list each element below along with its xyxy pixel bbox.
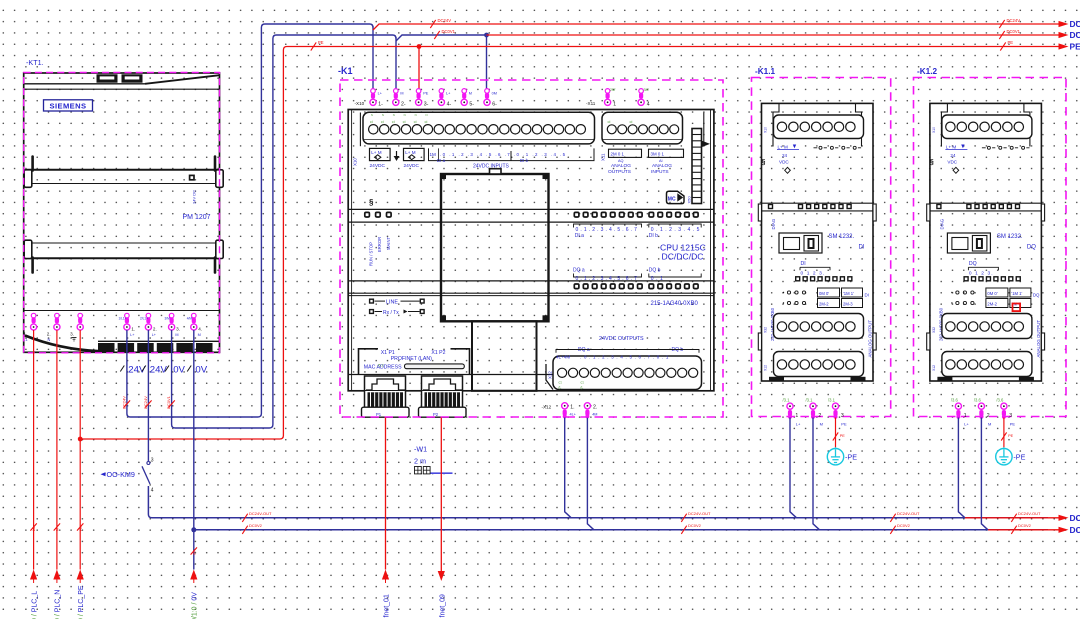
svg-text:. 0 . 1 . 2 . 3 . 4 . 5 . 6 .: . 0 . 1 . 2 . 3 . 4 . 5 . 6 . 7 . 0 . 1 [580,354,669,359]
svg-text:DQ: DQ [1033,293,1040,298]
svg-text:M: M [198,333,201,337]
ethernet jack X1 P2 [419,376,467,417]
wire DC0V1 horizontal segment to junction [396,35,487,41]
wire DC24V from PM output 1 to bus riser [127,24,373,417]
svg-text:24V DC: 24V DC [191,190,196,204]
PM1207 input terminal 2 (N) [54,313,60,330]
svg-text:PE: PE [1010,421,1016,426]
svg-text:-K1.2: -K1.2 [917,67,937,76]
DQ b status labels [649,268,701,282]
bus DC0V2 red tail and arrow [988,525,1080,535]
svg-text:4: 4 [647,102,650,108]
svg-text:DC: DC [1070,30,1080,40]
svg-text:5-: 5- [469,102,474,108]
svg-text:1M: 1M [430,152,437,157]
svg-text:DC: DC [1070,513,1080,523]
svg-text:2M-2: 2M-2 [819,302,829,307]
svg-text:DIAG: DIAG [939,218,944,229]
CPU 1215C body outline [348,110,714,391]
svg-text:DC24V-OUT: DC24V-OUT [1018,511,1041,516]
svg-text:4.: 4. [198,327,202,332]
wire DC0V1 from PM output 3 to bus riser [172,35,396,428]
net label DC24V (right) [999,20,1004,28]
PM1207 status LED and 24V DC label [190,175,197,204]
svg-text:DC24V: DC24V [121,396,126,409]
svg-text:DC0V2: DC0V2 [688,523,702,528]
svg-text:§: § [762,159,766,166]
svg-text:L+ M: L+ M [778,144,789,149]
CPU top corner brackets [360,113,710,148]
svg-text:SM 1232.: SM 1232. [997,234,1023,240]
cable -W1 network cable [414,444,453,474]
svg-text:DQ a: DQ a [578,347,590,353]
svg-text:P1: P1 [376,412,382,417]
svg-text:DQ b: DQ b [649,268,661,274]
wire -K1.2 PE to earth [1001,418,1013,448]
wire -K1.1 M to DC0V2 bus [813,418,820,530]
module -K1.1 address switch [779,233,822,253]
svg-text:L+: L+ [378,92,383,96]
terminal strip -X11 [586,88,650,108]
module -K1.2 type label SM 1232 [997,234,1036,250]
Rx/Tx indicator [370,310,424,316]
svg-text:X12: X12 [932,365,936,371]
svg-text:2.: 2. [153,327,157,332]
net label PE (left) [311,42,316,50]
svg-text:4M: 4M [592,412,597,416]
green wire end marks on analog connector [608,119,633,124]
PM1207 input terminal 3 (PE) [77,313,83,330]
svg-text:MC: MC [668,197,676,203]
svg-text:3: 3 [841,413,844,419]
svg-text:DQ: DQ [1027,244,1036,250]
svg-text:N: N [371,113,373,117]
svg-text:X10: X10 [932,127,936,133]
svg-text:L+: L+ [796,421,801,426]
wire DC24V label on KM9 wire [145,400,151,407]
svg-text:N: N [415,113,417,117]
interruption arrow fnet_09 [438,571,445,581]
svg-text:1: 1 [964,413,967,419]
svg-text:DC/DC/DC: DC/DC/DC [662,252,704,262]
svg-text:DI a: DI a [437,158,446,163]
svg-text:/3.1: /3.1 [828,397,836,402]
svg-text:X10: X10 [353,158,358,166]
svg-text:24V: 24V [150,365,168,376]
svg-text:DC24V-OUT: DC24V-OUT [897,511,920,516]
module -K1.2 body outline [927,103,1045,381]
svg-text:3M': 3M' [644,88,650,92]
24VDC OUTPUTS labels [556,336,699,359]
module -K1.2 output connector A [942,314,1032,339]
svg-text:X32: X32 [932,327,936,333]
svg-text:DI: DI [859,244,865,250]
svg-text:c1: c1 [581,381,585,385]
svg-text:RUN / STOP: RUN / STOP [368,242,373,266]
svg-text:DI: DI [801,261,806,267]
24V 24V 0V 0V output voltage labels [120,365,207,376]
svg-text:VDC: VDC [779,159,789,164]
module -K1.2 supply labels [930,144,968,173]
CPU LED band upper [348,209,714,222]
svg-text:fnet_09: fnet_09 [440,594,447,617]
svg-text:OO-KM9: OO-KM9 [107,470,135,479]
ethernet jack X1 P1 [362,376,410,417]
wire 0V label [191,547,197,554]
svg-text:0 / PLC_N: 0 / PLC_N [55,590,62,619]
PM1207 DIN rail band upper [24,157,223,188]
svg-text:DC0V1: DC0V1 [166,395,171,409]
module -K1.2 macro boundary (magenta dashed) [914,78,1067,417]
module -K1.2 unused terminal marks [982,146,1030,149]
svg-text:M: M [820,421,823,426]
svg-text:DC24V-OUT: DC24V-OUT [688,511,711,516]
module -K1.2 wiring diagram labels [951,288,1040,308]
svg-text:0.1.2.3.4.5.6.7: 0.1.2.3.4.5.6.7 [576,227,639,233]
earth symbol PE at -K1.1 [827,447,857,465]
wire -K1.1 PE to earth [833,418,845,448]
PM1207 bottom terminal area [24,311,220,352]
junction 0V / DC0V2 bus [191,527,196,532]
svg-text:3: 3 [151,458,154,464]
svg-text:L+ M: L+ M [946,144,957,149]
CPU K1 macro boundary (magenta dashed) [340,80,723,417]
net label DC24V (mid) [430,20,435,28]
svg-text:X11: X11 [601,153,606,161]
svg-text:PM 1207: PM 1207 [183,214,211,221]
svg-text:/3.1: /3.1 [783,397,791,402]
CPU display door (lower) [472,321,537,391]
svg-text:X1 P2: X1 P2 [431,350,445,356]
interruption arrow PLC_PE [77,570,84,584]
svg-text:3-: 3- [424,102,429,108]
svg-text:/3.6: /3.6 [974,397,982,402]
wire DC0V1 continuation to right edge [487,32,1069,38]
wire X12:2 to DC0V2 bus [587,418,594,530]
DQ a status labels [573,268,642,282]
svg-text:DC0V2: DC0V2 [897,523,911,528]
module -K1.2 channel labels [968,261,998,276]
net label DC0V1 (right) [999,31,1004,39]
wire PLC_N (neutral) [56,330,58,570]
module -K1.2 terminal 1 (L+) [951,397,970,426]
svg-text:0 1 2 3.: 0 1 2 3. [801,271,826,277]
module -K1.1 output connector A [774,314,864,339]
svg-text:P2: P2 [433,412,439,417]
wire DC24V riser label [124,400,130,407]
module -K1.1 channel LEDs [796,277,852,281]
svg-text:DC24V: DC24V [1007,18,1021,23]
wire 0V from PM output 4 down [193,330,195,570]
svg-text:L+: L+ [964,421,969,426]
svg-text:DI: DI [865,293,869,298]
svg-text:24: 24 [950,153,956,158]
svg-text:M: M [400,92,403,96]
svg-text:X1 P1: X1 P1 [381,350,395,356]
wire -K1.2 L+ to DC24V-OUT bus [958,418,965,518]
wire DC0V1 drop to X10:6 [486,35,488,89]
svg-text:2M': 2M' [610,88,616,92]
contact -OO-KM9 (NO contact) [142,458,154,494]
svg-text:'1M 1': '1M 1' [843,291,854,296]
interruption arrow PE right edge [1059,43,1069,49]
svg-text:24VDC: 24VDC [370,163,386,169]
svg-text:0 / PLC_PE: 0 / PLC_PE [78,585,85,619]
wire from KM9 to DC24V-OUT bus [148,486,1048,518]
svg-text:-X12: -X12 [542,404,552,409]
svg-text:PE: PE [841,421,847,426]
svg-text:4-: 4- [447,102,452,108]
svg-text:ANALOG OUTPUT: ANALOG OUTPUT [868,320,873,358]
svg-text:ANALOG OUTPUT: ANALOG OUTPUT [1036,320,1041,358]
svg-text:2 m: 2 m [414,456,426,465]
svg-text:MAINT: MAINT [386,237,391,250]
CPU analog connector block [602,112,683,144]
svg-text:-KT1.: -KT1. [26,58,44,67]
svg-text:0M 0': 0M 0' [819,291,829,296]
svg-text:DQ b: DQ b [672,347,684,353]
svg-text:1: 1 [795,413,798,419]
wire DC0V1 drop to X10:2 [395,37,397,89]
svg-text:3M 0 1: 3M 0 1 [651,152,665,157]
PM1207 input terminal labels [24,332,77,343]
svg-text:ci: ci [403,119,406,124]
svg-text:2M-3: 2M-3 [843,302,853,307]
svg-text:PE: PE [1008,434,1014,438]
svg-text:(L: (L [559,385,562,389]
svg-text:L+: L+ [130,333,135,337]
wire X12:1 to DC24V-OUT bus [565,418,572,518]
svg-text:-X10: -X10 [355,101,365,106]
svg-text:24VDC OUTPUTS: 24VDC OUTPUTS [599,336,644,342]
svg-text:N: N [393,113,395,117]
svg-text:PROFINET (LAN): PROFINET (LAN) [391,356,432,362]
wire DC24V continuation to right edge [373,21,1069,30]
svg-text:OUTPUTS: OUTPUTS [608,169,631,175]
svg-text:-W1: -W1 [414,444,427,453]
svg-text:DC0V1: DC0V1 [1007,29,1021,34]
svg-text:DC0V1: DC0V1 [442,29,456,34]
net label DC0V1 (mid) [434,31,439,39]
interruption arrow PLC_L [30,570,37,584]
module -K1.1 wiring diagram labels [783,288,869,308]
svg-text:/5.2: /5.2 [378,364,384,368]
analog input bracket [649,149,684,175]
wire PLC_L (L1 phase) [33,330,35,570]
svg-text:ci: ci [608,119,611,124]
svg-text:X12: X12 [548,371,553,379]
svg-text:X32: X32 [764,327,768,333]
svg-text:2: 2 [818,413,821,419]
wire -K1.2 M to DC0V2 bus [981,418,988,530]
svg-text:24VDC: 24VDC [404,163,420,169]
terminal strip -X10 [355,89,498,108]
module -K1.1 type label SM 1232 [829,234,865,250]
svg-text:fnet_01: fnet_01 [384,594,391,617]
svg-text:DIAG: DIAG [771,218,776,229]
svg-text:AI: AI [659,159,663,163]
svg-text:ci: ci [630,119,633,124]
svg-text:ERROR: ERROR [377,237,382,252]
wire PLC_PE [79,330,81,570]
svg-text:M: M [175,333,178,337]
CPU right bus connector (ladder) [692,129,702,204]
svg-text:4/M: 4/M [187,317,193,321]
svg-text:/3.6: /3.6 [996,397,1004,402]
svg-text:§: § [369,198,374,207]
svg-text:/3.1: /3.1 [806,397,814,402]
module -K1.1 supply labels [762,144,800,173]
PM1207 output terminal 4 (M 0V) [191,313,197,330]
svg-text:PE: PE [79,526,83,531]
svg-text:DI a: DI a [575,233,584,239]
svg-text:1: 1 [613,102,616,108]
module -K1.2 output connector B [942,352,1032,377]
memory card slot [667,191,692,203]
junction DC0V1 [484,33,489,38]
svg-text:3: 3 [1009,413,1012,419]
svg-text:1.: 1. [570,404,574,410]
svg-text:3.: 3. [70,332,74,337]
arrow between supply brackets [394,151,400,161]
svg-text:DQ: DQ [969,261,977,267]
svg-text:'1M 1': '1M 1' [1011,291,1022,296]
svg-text:DC: DC [1070,19,1080,29]
module -K1.1 terminal 2 (M) [806,397,823,426]
wire DC0V1 riser label [168,400,174,407]
module -K1.2 channel LEDs [964,277,1020,281]
module -K1.1 terminal 1 (L+) [783,397,802,426]
bus labels DC24V-OUT [242,511,1041,522]
svg-text:-PE: -PE [1013,453,1025,462]
module -K1.1 LED band [762,203,874,211]
bus labels DC0V2 [242,523,1031,534]
wire fnet_01 from port P1 [385,418,387,570]
svg-text:ci: ci [381,119,384,124]
wire DC24V drop to X10:1 [372,26,374,89]
bus DC0V2 [194,529,1048,531]
DI a status labels [574,224,642,239]
svg-text:X10: X10 [764,127,768,133]
svg-text:4L+4M: 4L+4M [556,354,570,359]
svg-text:ci: ci [414,119,417,124]
svg-text:1/L1+: 1/L1+ [119,317,127,321]
CPU supply/DI connector block [363,112,595,144]
module -K1.1 top connector [774,115,864,139]
svg-text:N: N [48,338,51,342]
PM1207 macro boundary (magenta dashed) [24,73,220,353]
module -K1.1 body outline [758,103,876,381]
svg-text:0 1 2 3.: 0 1 2 3. [969,271,994,277]
svg-text:ANALOG: ANALOG [652,163,672,169]
junction on PE wire [78,437,83,442]
LINE indicator [370,299,424,305]
PM1207 output terminal 3 (M 0V) [169,313,175,330]
wire labels L1 N PE [30,523,83,531]
svg-text:X12: X12 [764,365,768,371]
svg-text:M: M [988,421,991,426]
supply bracket 1 (L+ M 24VDC) [370,148,391,168]
svg-text:2-: 2- [401,102,406,108]
svg-text:N: N [382,113,384,117]
svg-text:DI b: DI b [649,233,658,239]
DI input bracket and labels [429,148,595,169]
SIEMENS logo label [44,100,93,111]
wire from PM output 2 (24V) to contact KM9 [147,330,149,461]
svg-text:SIEMENS: SIEMENS [50,102,87,111]
svg-text:DC24V-OUT: DC24V-OUT [249,511,272,516]
svg-text:1-: 1- [378,102,383,108]
supply bracket 2 (L+ M 24VDC) [404,148,425,168]
svg-text:L+: L+ [152,333,157,337]
svg-text:ci: ci [370,119,373,124]
svg-text:2/L1+: 2/L1+ [140,317,148,321]
svg-text:-PE: -PE [845,453,857,462]
svg-text:INPUTS: INPUTS [651,169,669,175]
interruption arrow fnet_01 [382,570,389,584]
svg-text:3.: 3. [176,327,180,332]
svg-text:PE: PE [318,40,324,45]
svg-text:2: 2 [987,413,990,419]
svg-text:2.: 2. [593,404,597,410]
module -K1.2 terminal 2 (M) [974,397,991,426]
RUN STOP ERROR MAINT labels [368,237,391,266]
svg-text:1.: 1. [131,327,135,332]
module -K1.2 LED band [930,203,1042,211]
power supply KT1 (Siemens PM 1207) body [24,73,220,352]
svg-text:L1: L1 [32,527,36,531]
svg-text:0 / PLC_L: 0 / PLC_L [31,591,38,619]
svg-text:/3.6: /3.6 [951,397,959,402]
PM1207 output terminal 1 (L+ 24V) [124,313,130,330]
svg-text:0.1.2.3.4.5: 0.1.2.3.4.5 [651,227,702,233]
green wire end marks on DI connector [370,113,428,124]
wire fnet_09 from port P2 [440,418,442,572]
module -K1.1 macro boundary (magenta dashed) [752,78,891,417]
svg-text:DQ a: DQ a [573,268,585,274]
svg-text:6-: 6- [492,102,497,108]
PM1207 output terminal labels [119,317,203,338]
PM1207 input terminal 1 (L1) [30,313,36,330]
svg-text:DI b: DI b [520,158,529,163]
junction PE top line [417,44,422,49]
svg-text:4L+: 4L+ [570,412,577,416]
svg-text:0/1:0 / 0V: 0/1:0 / 0V [192,592,199,619]
module -K1.2 address switch [947,233,990,253]
svg-text:LINE: LINE [386,299,398,305]
svg-text:ANALOG: ANALOG [611,163,631,169]
svg-text:N: N [56,528,60,531]
svg-text:-K1.1: -K1.1 [755,67,775,76]
svg-text:-K1: -K1 [338,66,353,76]
module -K1.1 channel labels [800,261,830,276]
svg-text:M: M [469,92,472,96]
24VDC outputs connector block [546,356,702,390]
svg-text:DC0V2: DC0V2 [249,523,263,528]
svg-text:2M-2: 2M-2 [987,302,997,307]
bus DC24V-OUT red tail and arrow [965,513,1080,523]
wire PE drop to X10:3 [418,47,420,89]
svg-text:c1: c1 [559,381,563,385]
interruption arrow PLC_N [53,570,60,584]
svg-text:(L: (L [581,385,584,389]
svg-text:DC0V2: DC0V2 [1018,523,1032,528]
svg-text:PE: PE [1008,40,1014,45]
svg-text:ci: ci [392,119,395,124]
module -K1.2 terminal 3 (PE) [996,397,1015,426]
svg-text:2.: 2. [47,332,51,337]
svg-text:2M 0 1: 2M 0 1 [611,152,625,157]
